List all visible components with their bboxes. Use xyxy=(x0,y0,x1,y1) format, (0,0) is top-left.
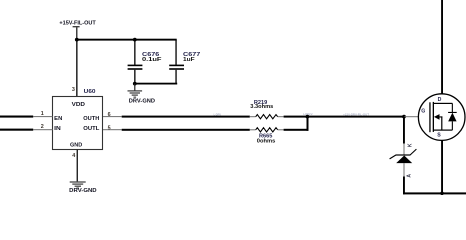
wire EN stub from left edge xyxy=(0,116,33,118)
svg-text:5: 5 xyxy=(108,126,111,132)
pin number 1 xyxy=(41,111,44,117)
svg-text:1uF: 1uF xyxy=(183,57,195,63)
value label 1uF xyxy=(183,57,195,63)
pin name GND xyxy=(70,143,82,149)
svg-text:S: S xyxy=(437,132,441,138)
pin lead EN xyxy=(33,116,52,117)
resistor R219 xyxy=(250,115,284,119)
svg-text:0.1uF: 0.1uF xyxy=(142,57,162,63)
svg-text:3.3ohms: 3.3ohms xyxy=(250,104,273,110)
wire U60 pin 4 to ground xyxy=(77,150,78,182)
value label 3.3ohms xyxy=(250,104,273,110)
power net +15V-FIL-OUT xyxy=(59,21,96,40)
svg-text:+15V-DRV-FIL-OUT: +15V-DRV-FIL-OUT xyxy=(343,113,369,117)
zener anode pin letter A xyxy=(407,174,413,178)
pin lead IN xyxy=(33,129,52,130)
IC U60 body xyxy=(53,97,103,150)
svg-text:DRV-GND: DRV-GND xyxy=(129,99,156,105)
svg-text:OUTL: OUTL xyxy=(83,126,100,132)
node at power junction xyxy=(75,38,79,42)
svg-text:U60: U60 xyxy=(84,89,96,95)
wire zener branch down xyxy=(403,117,405,144)
tiny net label near R665 junction xyxy=(303,112,313,116)
node at capacitor ground junction xyxy=(133,82,137,86)
pin name IN xyxy=(54,126,61,132)
svg-text:4: 4 xyxy=(72,153,75,159)
refdes label C676 xyxy=(142,52,159,58)
pin number 2 xyxy=(41,124,44,130)
pin number 4 xyxy=(72,153,75,159)
svg-text:K: K xyxy=(408,143,414,147)
MOSFET pin name G xyxy=(421,109,425,115)
svg-text:IN: IN xyxy=(54,126,61,132)
wire OUTH net left segment xyxy=(122,116,250,118)
wire C677 bottom to ground node xyxy=(135,83,177,85)
pin name VDD xyxy=(72,102,85,108)
wire zener anode down to bottom net xyxy=(403,177,405,195)
node at source bottom junction xyxy=(440,192,444,196)
refdes label U60 xyxy=(84,89,96,95)
wire OUTL net left segment xyxy=(122,129,250,131)
svg-text:0ohms: 0ohms xyxy=(257,138,276,144)
pin lead MOSFET gate xyxy=(404,116,430,117)
svg-text:D: D xyxy=(438,97,442,103)
svg-text:OUTH: OUTH xyxy=(83,116,99,122)
pin lead OUTH xyxy=(103,116,122,117)
pin lead OUTL xyxy=(103,129,122,130)
pin lead zener cathode xyxy=(404,144,405,156)
svg-text:GND: GND xyxy=(70,143,82,149)
value label 0ohms xyxy=(257,138,276,144)
svg-text:DRV-GND: DRV-GND xyxy=(69,188,97,194)
wire IN stub from left edge xyxy=(0,129,33,131)
wire MOSFET drain from top edge xyxy=(441,0,443,103)
wire top horizontal from power to C677 xyxy=(76,39,177,41)
svg-text:L-DRV: L-DRV xyxy=(214,112,222,116)
wire VDD drop to U60 pin 3 xyxy=(76,40,77,97)
svg-text:2: 2 xyxy=(41,124,44,130)
capacitor C676 xyxy=(128,40,143,84)
svg-text:EN: EN xyxy=(54,116,62,122)
pin number 5 xyxy=(108,126,111,132)
wire bottom source net xyxy=(403,192,466,194)
pin name OUTH xyxy=(83,116,99,122)
tiny net label on OUTH wire xyxy=(214,112,222,116)
MOSFET pin name D xyxy=(438,97,442,103)
pin name EN xyxy=(54,116,62,122)
refdes label R665 xyxy=(259,133,273,139)
wire OUTH net right segment to gate node xyxy=(284,116,405,118)
n-channel MOSFET xyxy=(418,94,465,141)
capacitor C677 xyxy=(169,40,184,84)
pin number 3 xyxy=(72,87,75,93)
value label 0.1uF xyxy=(142,57,162,63)
tiny net label on gate wire xyxy=(343,113,369,117)
wire OUTL rise up to OUTH node xyxy=(307,117,309,131)
svg-text:A: A xyxy=(407,174,413,178)
svg-text:3: 3 xyxy=(72,87,75,93)
wire MOSFET source down xyxy=(441,130,443,193)
svg-text:G: G xyxy=(421,109,425,115)
node at C676 top xyxy=(133,38,137,42)
node where OUTL joins OUTH xyxy=(306,115,310,119)
zener cathode pin letter K xyxy=(408,143,414,147)
wire OUTL net right segment xyxy=(284,129,309,131)
MOSFET pin name S xyxy=(437,132,441,138)
ground DRV-GND (capacitors) xyxy=(128,84,156,105)
resistor R665 xyxy=(250,128,284,132)
pin number 6 xyxy=(108,112,111,118)
ground DRV-GND (U60 pin 4) xyxy=(69,181,97,194)
svg-text:VDD: VDD xyxy=(72,102,85,108)
pin name OUTL xyxy=(83,126,100,132)
refdes label C677 xyxy=(183,52,200,58)
svg-text:+15V-FIL-OUT: +15V-FIL-OUT xyxy=(59,21,96,27)
refdes label R219 xyxy=(254,100,268,106)
zener diode xyxy=(390,149,417,176)
node at MOSFET gate / zener branch xyxy=(402,115,406,119)
